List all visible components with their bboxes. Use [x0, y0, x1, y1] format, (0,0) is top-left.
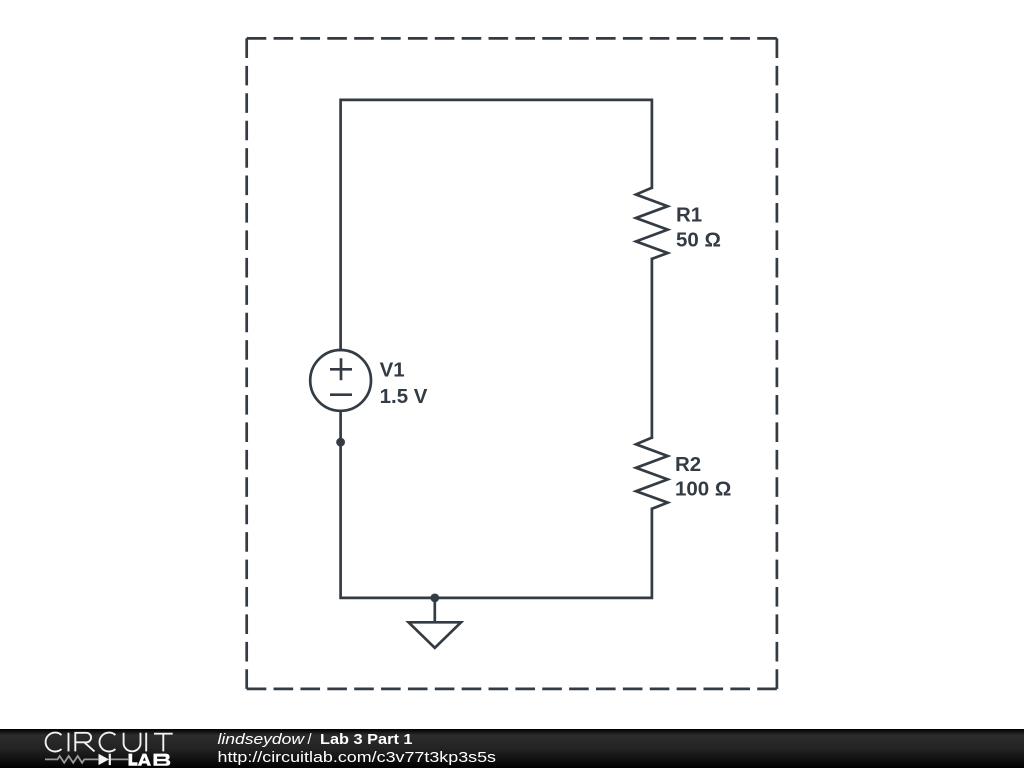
svg-text:lindseydow: lindseydow [218, 732, 306, 748]
svg-text:50 Ω: 50 Ω [676, 228, 721, 251]
svg-text:V1: V1 [380, 358, 405, 381]
svg-text:R2: R2 [675, 453, 701, 476]
svg-text:http://circuitlab.com/c3v77t3k: http://circuitlab.com/c3v77t3kp3s5s [218, 750, 497, 766]
svg-text:R1: R1 [676, 203, 702, 226]
svg-text:Lab 3 Part 1: Lab 3 Part 1 [320, 732, 413, 748]
svg-text:100 Ω: 100 Ω [675, 477, 731, 500]
svg-text:1.5 V: 1.5 V [380, 385, 428, 408]
